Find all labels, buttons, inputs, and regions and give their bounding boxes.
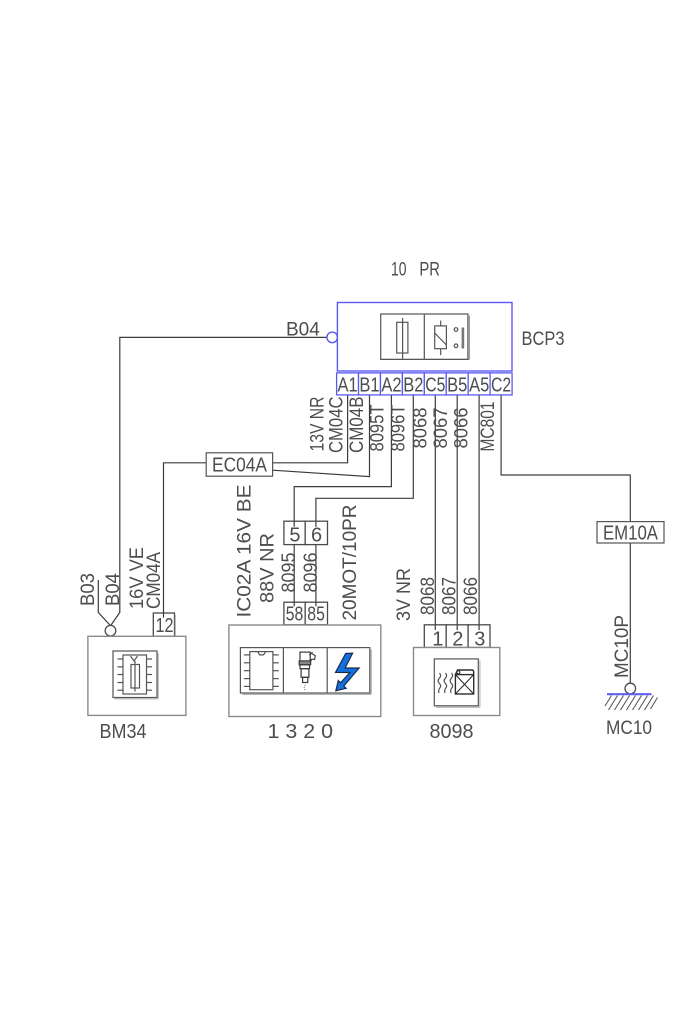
lightning bolt icon (blue) (336, 653, 360, 691)
svg-text:B5: B5 (447, 374, 467, 396)
splice EC04A (206, 453, 272, 477)
wire stubs into pins 58 85 (294, 602, 316, 606)
svg-text:8067: 8067 (431, 408, 452, 449)
wire pin5 to pin58 (293, 545, 295, 603)
wire C2 to EM10A and ground (501, 395, 630, 683)
svg-text:A5: A5 (469, 374, 489, 396)
svg-text:EM10A: EM10A (603, 523, 659, 545)
fuse+relay housing inside BCP3 (381, 314, 470, 359)
pin 12 box (153, 613, 175, 637)
svg-text:A2: A2 (381, 374, 401, 396)
heater unit box 8098 (414, 648, 500, 716)
svg-text:8096: 8096 (301, 553, 322, 593)
connector pins 1 2 3 (424, 625, 490, 648)
svg-text:8067: 8067 (439, 577, 460, 615)
wire stubs into pins 5 6 (294, 521, 316, 527)
svg-text:58: 58 (286, 604, 304, 626)
svg-text:8095: 8095 (279, 553, 300, 593)
connector pins 58 and 85 (284, 602, 328, 625)
svg-text:CM04A: CM04A (144, 552, 165, 609)
wire stubs into pins 1 2 3 (435, 625, 479, 630)
injector icon (299, 652, 315, 690)
splice EM10A (597, 522, 664, 545)
connector pins 5 and 6 (284, 521, 328, 544)
wire B5 to pin 2 (456, 395, 458, 625)
junction node at BM34 (105, 625, 116, 636)
svg-text:BM34: BM34 (100, 721, 147, 743)
svg-text:PR: PR (419, 260, 440, 281)
svg-text:B03: B03 (78, 573, 99, 606)
svg-text:B1: B1 (359, 374, 379, 396)
wire B04 from BCP3 to BM34 (111, 337, 327, 625)
svg-text:8095T: 8095T (367, 404, 388, 451)
svg-text:8096T: 8096T (389, 404, 410, 451)
svg-text:B04: B04 (286, 320, 320, 341)
wire stub B03 (98, 580, 110, 625)
svg-text:C2: C2 (491, 374, 511, 396)
svg-text:20MOT/10PR: 20MOT/10PR (340, 505, 361, 621)
relay unit BCP3 outer box (337, 303, 512, 372)
svg-text:A1: A1 (338, 374, 358, 396)
fuel can icon (455, 670, 473, 694)
wire EC04A to pin 12 (164, 463, 207, 613)
heat wavy lines (438, 673, 453, 693)
icon housing inside 1320 (240, 648, 371, 695)
wire B1 to EC04A diagonal (273, 395, 370, 477)
ground bar (blue) (607, 693, 652, 695)
fuse carrier symbol inside BM34 (113, 651, 158, 699)
svg-text:BCP3: BCP3 (522, 329, 565, 350)
svg-text:8068: 8068 (418, 577, 439, 615)
node circle B04 (blue) (327, 332, 338, 343)
svg-text:IC02A 16V BE: IC02A 16V BE (235, 485, 256, 618)
svg-text:CM04C: CM04C (326, 397, 347, 454)
label 10 PR (391, 260, 440, 281)
svg-text:8098: 8098 (430, 721, 474, 743)
svg-text:MC801: MC801 (478, 402, 499, 452)
heater icon housing (434, 659, 480, 707)
fuse symbol inside BCP3 (397, 318, 408, 359)
wire pin6 to pin85 (315, 545, 317, 603)
svg-text:8066: 8066 (461, 577, 482, 615)
wire A2 to pin 5 (294, 395, 391, 521)
svg-text:6: 6 (311, 524, 322, 546)
ground hatching (605, 696, 658, 711)
svg-text:10: 10 (391, 260, 407, 281)
wire A1 to EC04A (273, 395, 348, 463)
svg-text:8068: 8068 (411, 408, 432, 449)
svg-text:5: 5 (289, 524, 300, 546)
connector pin row of BCP3 (337, 373, 512, 395)
svg-text:MC10: MC10 (606, 718, 652, 739)
svg-text:CM04B: CM04B (347, 397, 368, 454)
svg-text:EC04A: EC04A (212, 455, 268, 477)
svg-text:MC10P: MC10P (612, 615, 633, 678)
battery unit box BM34 (88, 636, 186, 715)
svg-text:1 3 2 0: 1 3 2 0 (268, 721, 334, 743)
IC chip icon (244, 652, 279, 690)
svg-text:85: 85 (307, 604, 325, 626)
wire C5 to pin 1 (434, 395, 436, 625)
svg-text:C5: C5 (425, 374, 445, 396)
svg-text:8066: 8066 (451, 408, 472, 449)
svg-text:B2: B2 (403, 374, 423, 396)
svg-text:88V NR: 88V NR (258, 533, 279, 603)
ground node circle MC10 (625, 683, 636, 694)
relay symbol inside BCP3 (435, 321, 463, 356)
wire B2 to pin 6 (316, 395, 413, 521)
svg-text:3V NR: 3V NR (394, 568, 415, 621)
svg-text:B04: B04 (103, 573, 124, 606)
svg-text:13V NR: 13V NR (308, 397, 329, 452)
ECU box 1320 (229, 625, 381, 717)
svg-text:12: 12 (156, 615, 174, 637)
wire A5 to pin 3 (478, 395, 480, 625)
